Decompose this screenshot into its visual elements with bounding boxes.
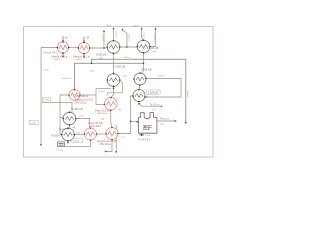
wire V1b right mini loop (107, 81, 123, 96)
zigzag HX2 (80, 46, 88, 51)
svg-text:V-100 L: V-100 L (114, 31, 116, 39)
wire H bottom to CL element (65, 140, 91, 146)
ports exchanger Tq-100 (61, 134, 63, 136)
arrow energy out E-101 (83, 56, 85, 58)
svg-text:s03 xx: s03 xx (124, 57, 131, 59)
wire C1 top up arrow (113, 28, 115, 41)
ports reactor GLC-102 (110, 97, 112, 99)
page frame (24, 27, 214, 158)
wire H right to I left (97, 133, 107, 135)
exchanger G (62, 128, 75, 141)
wire B left down to vessel and I right (118, 96, 133, 134)
exchanger F (63, 112, 76, 125)
svg-text:P-101: P-101 (145, 135, 152, 137)
exchanger A (134, 73, 146, 85)
cooler HX1 (57, 42, 68, 53)
svg-text:x HX-1: x HX-1 (54, 59, 61, 61)
wire C2 top up arrow (142, 29, 144, 40)
svg-text:CRV-100 a: CRV-100 a (75, 103, 87, 105)
svg-text:Reactor GL-2 a: Reactor GL-2 a (73, 56, 90, 59)
reactor H (85, 128, 97, 140)
svg-text:CRV-101 a: CRV-101 a (100, 144, 112, 146)
wire vapor stream x104 (103, 32, 105, 48)
svg-text:CL-01: CL-01 (57, 150, 64, 152)
arrow energy out Tq-100 (67, 142, 69, 144)
svg-text:HX-102 x: HX-102 x (63, 78, 73, 80)
wire C2 bottom to A (141, 53, 144, 74)
wire A right loop to B right (146, 79, 181, 98)
tiny labels (29, 25, 188, 151)
reactor J (69, 90, 80, 101)
wire junction top across (96, 88, 111, 90)
svg-text:Reactor GLC-103: Reactor GLC-103 (98, 140, 117, 143)
svg-text:Vap 1: Vap 1 (133, 26, 139, 28)
wire x116 down arrow (115, 125, 117, 152)
wire junction to R3 left (96, 104, 104, 106)
svg-text:V-100 v: V-100 v (102, 34, 104, 42)
svg-text:V-1010 L/B: V-1010 L/B (147, 47, 159, 50)
svg-text:V-101 x: V-101 x (142, 32, 144, 40)
zigzag R3 (106, 102, 115, 107)
ports cooler E-100 (57, 47, 59, 49)
wire HX2 energy stub down (83, 54, 85, 58)
arrowheads (40, 27, 187, 153)
wire HX1 energy stub down (62, 53, 64, 57)
zigzag F (65, 117, 73, 121)
wire I bottom to left arrow (106, 140, 112, 152)
zigzag J (70, 93, 78, 97)
svg-text:CRV-101 a: CRV-101 a (97, 113, 108, 115)
svg-text:V-100 x: V-100 x (127, 34, 129, 42)
svg-text:Reactor GLC-101: Reactor GLC-101 (75, 99, 94, 102)
svg-text:P-100 A/B x: P-100 A/B x (138, 138, 151, 141)
wire HX1-HX2 (69, 47, 79, 49)
svg-text:Tk-100 L/B: Tk-100 L/B (71, 108, 83, 111)
arrow energy out E-100 (62, 56, 64, 58)
arrow vapor stream x127 (122, 28, 124, 30)
arrow salida product (185, 122, 187, 124)
arrow vapor stream x104 (103, 30, 105, 32)
zigzag B (135, 94, 143, 98)
arrow V-100 top stream (113, 27, 115, 29)
svg-text:V-101 v: V-101 v (153, 34, 155, 42)
ports separator V-100 (106, 46, 108, 48)
pump glyph P-100 (140, 134, 143, 137)
svg-text:Mezcla HX-1: Mezcla HX-1 (44, 51, 58, 54)
wire feed inlet to HX1 (41, 47, 57, 49)
arrow energy into E-100 (62, 40, 64, 42)
wire V1b bottom junction (113, 86, 115, 88)
wire R3 bottom to I top (111, 110, 112, 127)
svg-text:Q-103: Q-103 (73, 141, 80, 143)
red circle icons (57, 42, 118, 140)
zigzag C1 (109, 45, 117, 49)
ports reactor GLC-103 (105, 133, 107, 135)
svg-text:Vap 0: Vap 0 (106, 25, 112, 27)
svg-text:TV-100 s: TV-100 s (51, 136, 61, 138)
wire HX2 glyph top (83, 37, 85, 41)
zigzag I (108, 131, 117, 135)
arrow T-100 bottom stream (138, 103, 140, 105)
reactor R3 (105, 98, 118, 111)
ports exchanger V-102 (113, 73, 115, 75)
wire left rail (40, 48, 42, 146)
svg-text:Tq-100 xx: Tq-100 xx (59, 129, 70, 131)
wire G bottom energy stub (67, 141, 69, 143)
separator V-100 C1 (107, 41, 120, 54)
arrow bottom stream x116 (115, 151, 117, 153)
svg-text:x GL-2: x GL-2 (76, 59, 83, 61)
separator V-101 C2 (137, 40, 150, 53)
ports reactor HX-102 (90, 127, 92, 129)
svg-text:V-102 L/B: V-102 L/B (141, 69, 152, 72)
svg-text:T-100 L/B: T-100 L/B (148, 91, 159, 94)
zigzag H (86, 132, 95, 136)
svg-text:GLC-102 a: GLC-102 a (90, 126, 102, 128)
port dots (57, 39, 151, 141)
arrow left rail outlet (40, 144, 42, 146)
junction dots (113, 88, 115, 90)
zigzag A (136, 77, 144, 81)
zigzag V1b (109, 78, 117, 82)
cooler HX2 (78, 42, 89, 53)
arrow V-101 top stream (141, 27, 143, 29)
wire J left to x60 rail down to G (60, 95, 69, 135)
svg-text:Rec xx: Rec xx (98, 91, 105, 93)
black circle icons (62, 40, 150, 141)
wire HX2-C1 (90, 47, 108, 49)
svg-text:V-100 L/B: V-100 L/B (96, 53, 107, 56)
wire rail branch to F left (60, 116, 63, 118)
arrow recycle into T-100 (145, 96, 147, 98)
svg-text:Recir 1: Recir 1 (159, 75, 166, 78)
wire B bottom stream (139, 102, 162, 107)
wire C1 bottom spine to V1b top (113, 53, 115, 73)
wire branch up to y59 across to right rail down arrow (92, 59, 186, 122)
wire vapor stream x127 (122, 30, 127, 47)
reactor I (106, 128, 118, 140)
red port dots (68, 89, 119, 141)
ports reactor CRV-100 (68, 94, 70, 96)
wire F bottom to G top (68, 125, 70, 128)
wire V1b bottom to R3 top (111, 88, 114, 97)
ports separator V-101 (136, 46, 138, 48)
vessel internal red mark (143, 126, 152, 130)
CL element (58, 142, 65, 147)
svg-text:1-00: 1-00 (99, 57, 104, 59)
wire J top up and across to C2 chain junction (75, 63, 144, 89)
arrow vessel outlet (175, 120, 177, 122)
wire junction to vessel inlet (131, 120, 138, 122)
svg-text:Mezcla HX-1 a: Mezcla HX-1 a (52, 56, 68, 59)
wire C1-C2 (120, 46, 137, 48)
exchanger V1b (107, 74, 120, 87)
vessel T-101 (138, 113, 157, 134)
arrow T-100 stream end (161, 105, 163, 107)
zigzag C2 (139, 45, 147, 49)
arrow V-101 right stream (155, 27, 157, 29)
svg-text:Prod xxx: Prod xxx (160, 118, 170, 121)
wire C2 right up arrow (150, 29, 156, 47)
arrow bottom stream left (104, 151, 106, 153)
arrow energy into E-101 (83, 41, 85, 43)
svg-text:V-102 L/B: V-102 L/B (115, 66, 126, 69)
zigzag HX1 (59, 45, 67, 50)
ports cooler E-101 (78, 47, 80, 49)
exchanger B (133, 90, 145, 102)
wire junction vertical (95, 89, 97, 105)
svg-text:Tk-101 xx: Tk-101 xx (150, 104, 161, 106)
svg-text:Reac GLC-102: Reac GLC-102 (95, 110, 112, 113)
wire bottom of rail to F (41, 102, 72, 113)
svg-text:L-101: L-101 (43, 70, 49, 72)
ports exchanger Tk-100 (62, 118, 64, 120)
svg-text:Reac HX-102: Reac HX-102 (89, 122, 104, 125)
svg-text:Salida: Salida (186, 91, 188, 98)
wire A bottom to B top (139, 85, 140, 90)
ports exchanger E-102 (139, 72, 141, 74)
zigzag G (64, 133, 72, 137)
wire F right to H top (76, 119, 90, 129)
ports exchanger T-100 (132, 95, 134, 97)
wire G right to H left (74, 134, 84, 136)
wire HX1 glyph top (62, 36, 64, 40)
wire vessel outlet (157, 120, 176, 122)
wire J right to junction (80, 94, 96, 96)
